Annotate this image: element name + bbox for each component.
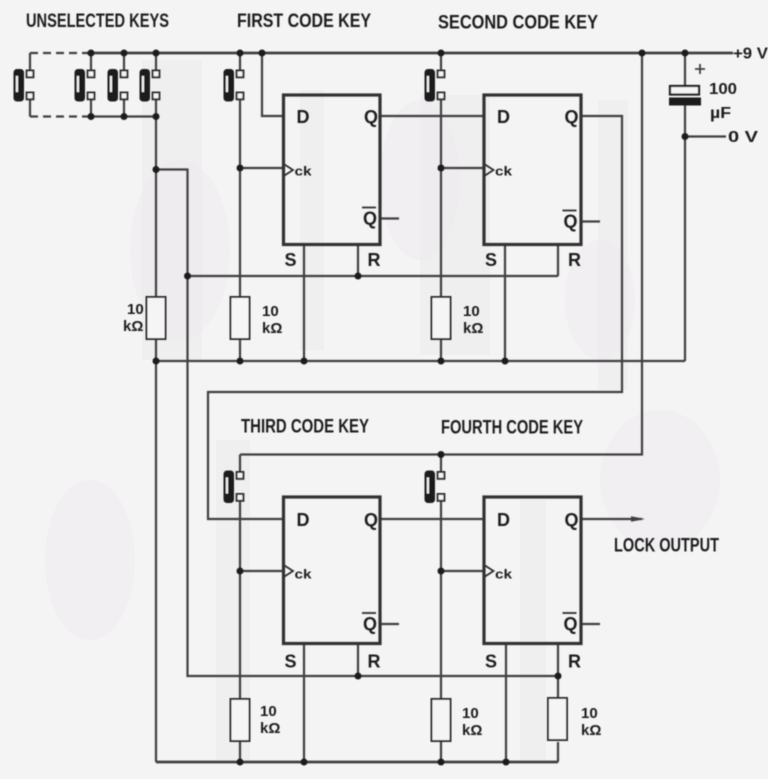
svg-text:kΩ: kΩ [462,722,482,739]
svg-text:Q: Q [364,510,378,530]
svg-text:+9 V: +9 V [733,46,768,63]
svg-text:S: S [485,652,497,672]
svg-text:S: S [285,652,297,672]
svg-text:ck: ck [495,164,513,179]
svg-text:kΩ: kΩ [260,720,280,737]
svg-text:Q: Q [363,614,377,634]
svg-text:10: 10 [262,303,279,320]
svg-text:100: 100 [709,81,737,98]
svg-text:Q: Q [564,212,578,232]
svg-text:10: 10 [581,705,598,722]
svg-text:D: D [497,510,510,530]
svg-text:ck: ck [295,164,313,179]
svg-text:D: D [297,107,310,127]
svg-text:FIRST CODE KEY: FIRST CODE KEY [237,11,371,32]
svg-text:D: D [297,510,310,530]
svg-text:R: R [568,652,581,672]
svg-text:0 V: 0 V [728,129,758,146]
svg-text:10: 10 [463,303,480,320]
svg-text:S: S [285,250,297,270]
svg-text:ck: ck [495,567,513,582]
svg-text:10: 10 [127,301,144,318]
svg-text:Q: Q [564,614,578,634]
svg-text:Q: Q [364,107,378,127]
svg-text:R: R [368,250,381,270]
svg-text:S: S [485,250,497,270]
svg-text:THIRD CODE KEY: THIRD CODE KEY [241,417,369,438]
svg-text:Q: Q [565,107,579,127]
svg-text:10: 10 [260,703,277,720]
svg-text:µF: µF [710,105,731,122]
svg-text:kΩ: kΩ [262,320,282,337]
svg-text:kΩ: kΩ [123,318,143,335]
svg-text:kΩ: kΩ [581,722,601,739]
svg-text:R: R [368,652,381,672]
svg-text:Q: Q [363,209,377,229]
svg-text:UNSELECTED KEYS: UNSELECTED KEYS [26,11,169,32]
svg-text:FOURTH CODE KEY: FOURTH CODE KEY [441,418,583,439]
svg-text:kΩ: kΩ [463,320,483,337]
svg-text:SECOND CODE KEY: SECOND CODE KEY [438,13,598,34]
svg-text:R: R [568,250,581,270]
svg-text:D: D [497,107,510,127]
svg-text:ck: ck [295,567,313,582]
svg-text:10: 10 [462,705,479,722]
svg-text:LOCK OUTPUT: LOCK OUTPUT [614,536,719,557]
svg-text:Q: Q [565,510,579,530]
